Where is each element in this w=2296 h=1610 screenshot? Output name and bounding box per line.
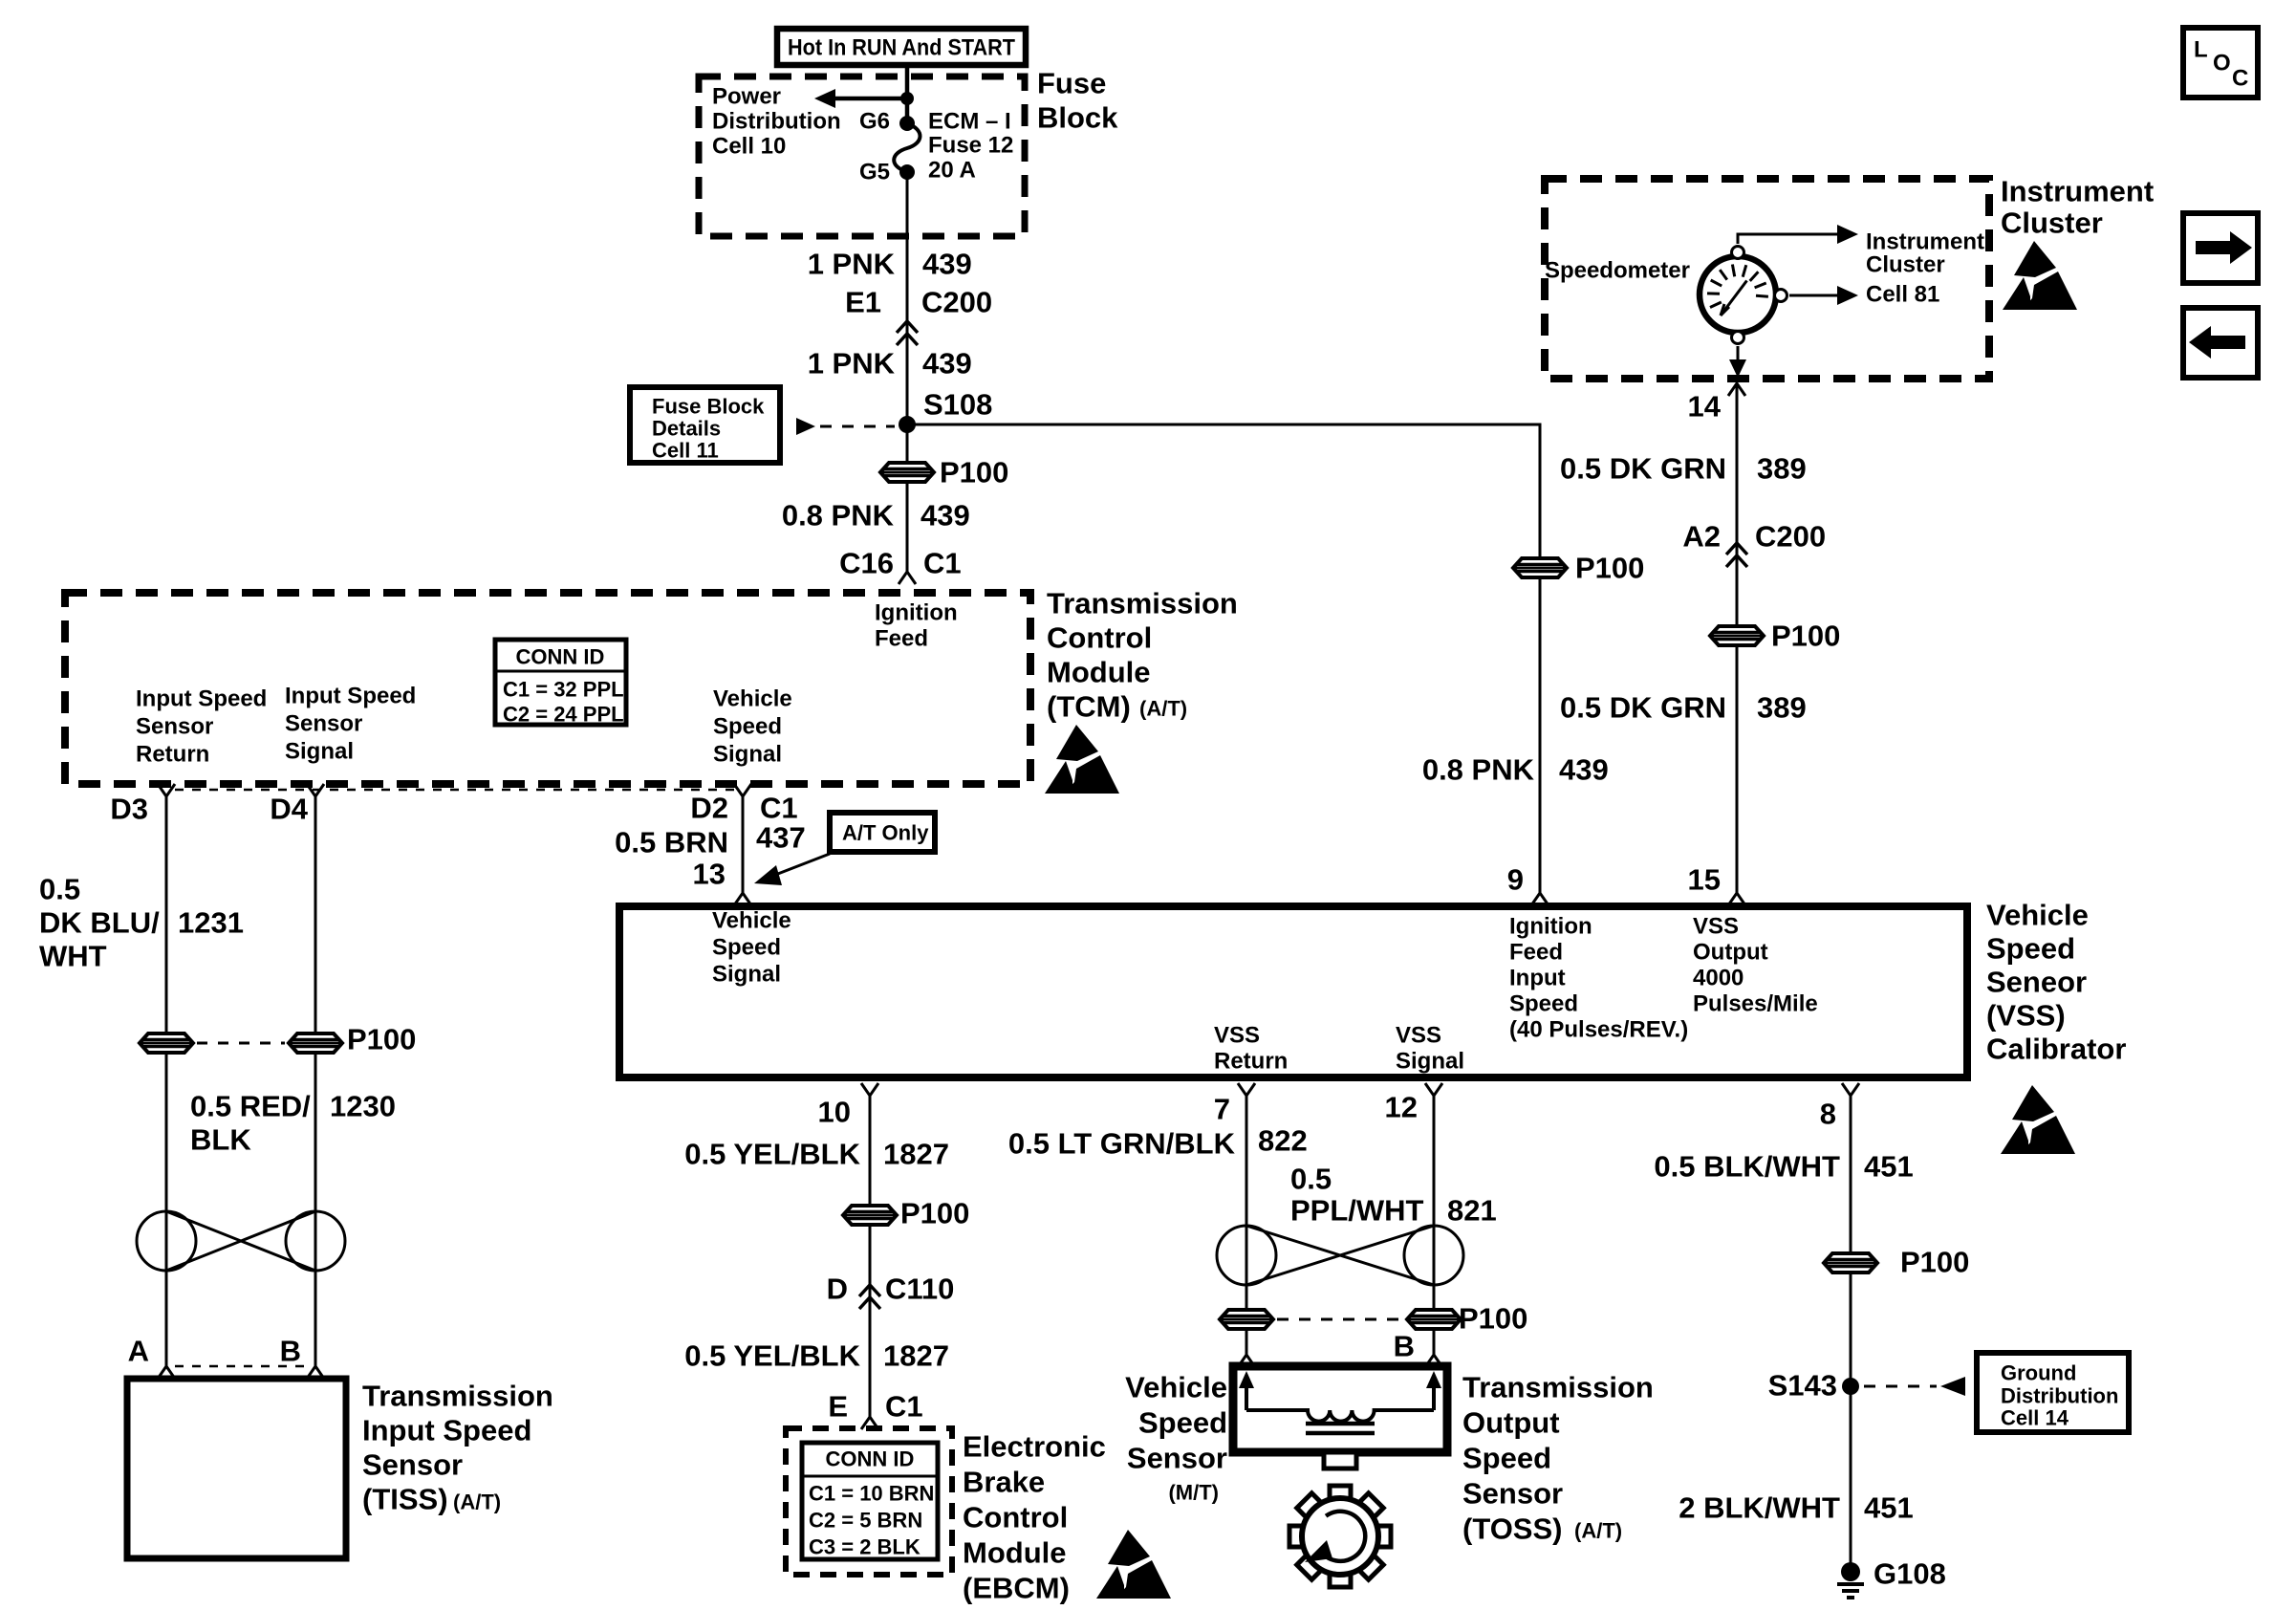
svg-text:Fuse Block: Fuse Block: [652, 395, 765, 419]
pin B: [307, 1366, 324, 1379]
wire: speedometer to cell 81: [1789, 294, 1837, 297]
pin 10: [861, 1083, 878, 1096]
svg-text:Power: Power: [712, 84, 781, 110]
svg-text:VSS: VSS: [1693, 914, 1739, 940]
svg-text:C1: C1: [885, 1390, 923, 1424]
svg-text:Block: Block: [1037, 101, 1118, 135]
svg-text:0.5 DK GRN: 0.5 DK GRN: [1560, 452, 1726, 486]
svg-text:Vehicle: Vehicle: [712, 908, 791, 934]
pin D2 / C1: [734, 784, 751, 796]
svg-text:Signal: Signal: [1396, 1049, 1464, 1075]
svg-text:G108: G108: [1874, 1557, 1946, 1591]
svg-text:1230: 1230: [330, 1090, 396, 1123]
svg-text:Distribution: Distribution: [712, 109, 841, 135]
wire: speedometer to instrument cluster (top): [1738, 234, 1837, 244]
svg-text:(EBCM): (EBCM): [963, 1572, 1070, 1605]
ground G108: [1837, 1557, 1946, 1599]
svg-text:E: E: [828, 1390, 848, 1424]
svg-text:DK BLU/: DK BLU/: [39, 906, 160, 940]
svg-text:Feed: Feed: [875, 626, 928, 652]
svg-text:Input Speed: Input Speed: [285, 684, 416, 709]
instrument cluster dashed box: [1545, 179, 1989, 379]
gear reluctor icon: [1289, 1486, 1391, 1587]
svg-text:C2 = 5 BRN: C2 = 5 BRN: [809, 1509, 922, 1533]
connector P100 on ignition feed branch: [1513, 558, 1567, 577]
svg-text:(M/T): (M/T): [1168, 1481, 1219, 1505]
svg-text:(TOSS): (TOSS): [1462, 1512, 1563, 1546]
svg-text:D4: D4: [270, 793, 308, 826]
svg-text:Ignition: Ignition: [1509, 914, 1592, 940]
VSS calibrator box: [619, 906, 1967, 1077]
TOSS mounting tab: [1324, 1452, 1356, 1469]
wire: VSS output to EBCM: [869, 1096, 872, 1417]
svg-text:Speed: Speed: [1509, 991, 1578, 1017]
svg-text:G6: G6: [859, 109, 890, 135]
svg-text:Module: Module: [963, 1536, 1067, 1570]
svg-text:P100: P100: [1575, 552, 1644, 585]
arrow box right: [2183, 213, 2258, 283]
pin A: [158, 1366, 175, 1379]
svg-text:Output: Output: [1693, 940, 1768, 966]
node G5: [899, 164, 915, 180]
svg-text:Transmission: Transmission: [1462, 1371, 1654, 1404]
svg-text:D2: D2: [690, 792, 728, 825]
wire: hot feed into fuse block: [905, 65, 910, 123]
svg-text:Pulses/Mile: Pulses/Mile: [1693, 991, 1818, 1017]
svg-text:Transmission: Transmission: [1047, 587, 1238, 620]
wire: VSS signal pin 12 down: [1433, 1096, 1436, 1355]
svg-text:0.8 PNK: 0.8 PNK: [782, 499, 895, 533]
svg-text:Sensor: Sensor: [1127, 1442, 1227, 1475]
Hot In RUN And START box: [777, 29, 1026, 65]
svg-text:Signal: Signal: [712, 962, 781, 988]
svg-text:7: 7: [1214, 1093, 1230, 1126]
wire: input speed sensor signal D4: [314, 796, 317, 1366]
svg-text:821: 821: [1447, 1194, 1497, 1228]
svg-text:P100: P100: [1900, 1246, 1969, 1279]
svg-text:WHT: WHT: [39, 940, 107, 973]
svg-text:Cell 14: Cell 14: [2001, 1406, 2069, 1430]
arrow from A/T Only to pin 13: [770, 854, 830, 877]
wire: speedo feed down to VSS pin 15: [1736, 396, 1739, 893]
svg-text:A: A: [128, 1335, 149, 1368]
svg-text:C1: C1: [923, 547, 962, 580]
ESD symbol instrument cluster: [2003, 241, 2077, 310]
svg-text:Cell 81: Cell 81: [1866, 282, 1939, 308]
svg-text:Speed: Speed: [1138, 1406, 1227, 1440]
svg-text:A/T Only: A/T Only: [842, 821, 929, 845]
svg-text:20 A: 20 A: [928, 158, 976, 184]
svg-text:P100: P100: [1459, 1302, 1527, 1336]
svg-text:15: 15: [1688, 863, 1721, 897]
svg-text:439: 439: [922, 248, 972, 281]
svg-text:2 BLK/WHT: 2 BLK/WHT: [1679, 1491, 1840, 1525]
svg-text:CONN ID: CONN ID: [826, 1447, 915, 1471]
pin 14: [1728, 383, 1745, 396]
svg-text:Signal: Signal: [285, 739, 354, 765]
svg-text:Control: Control: [1047, 621, 1152, 655]
svg-text:ECM – I: ECM – I: [928, 109, 1011, 135]
svg-text:1 PNK: 1 PNK: [808, 248, 896, 281]
svg-text:12: 12: [1385, 1091, 1418, 1124]
svg-text:(A/T): (A/T): [453, 1490, 501, 1514]
svg-text:S143: S143: [1768, 1369, 1837, 1403]
CONN ID table TCM: [495, 640, 626, 725]
svg-text:Seneor: Seneor: [1986, 966, 2087, 999]
svg-text:S108: S108: [923, 388, 992, 422]
svg-text:C1: C1: [760, 792, 798, 825]
svg-text:Input Speed: Input Speed: [136, 686, 267, 712]
svg-text:Return: Return: [1214, 1049, 1288, 1075]
svg-text:C2 = 24 PPL: C2 = 24 PPL: [503, 703, 624, 727]
wire: 1 PNK 439 from fuse to TCM: [906, 172, 909, 572]
svg-text:13: 13: [693, 858, 726, 891]
svg-text:Input Speed: Input Speed: [362, 1414, 531, 1447]
svg-text:10: 10: [818, 1096, 851, 1129]
TOSS box: [1233, 1366, 1447, 1452]
svg-text:1231: 1231: [178, 906, 244, 940]
connector P100 on ground wire: [1824, 1253, 1877, 1273]
svg-text:14: 14: [1688, 390, 1722, 424]
connector P100 pair on TISS wires: [140, 1033, 193, 1053]
svg-text:C200: C200: [921, 286, 992, 319]
svg-text:Brake: Brake: [963, 1466, 1045, 1499]
svg-text:Speed: Speed: [713, 714, 782, 740]
wire: VSS ground pin 8 to G108: [1850, 1096, 1852, 1568]
svg-text:0.5 YEL/BLK: 0.5 YEL/BLK: [684, 1138, 860, 1171]
svg-text:0.5 YEL/BLK: 0.5 YEL/BLK: [684, 1339, 860, 1373]
svg-text:439: 439: [1559, 753, 1609, 787]
svg-text:Ignition: Ignition: [875, 600, 958, 626]
dashed A/T pin link under TCM: [175, 789, 734, 792]
pin forks into TOSS: [1238, 1355, 1255, 1367]
svg-text:1827: 1827: [883, 1339, 949, 1373]
A/T Only box: [830, 813, 935, 852]
svg-text:Output: Output: [1462, 1406, 1560, 1440]
svg-text:O: O: [2213, 51, 2231, 76]
svg-text:Feed: Feed: [1509, 940, 1563, 966]
svg-text:Hot In RUN And START: Hot In RUN And START: [788, 35, 1015, 61]
svg-text:0.5: 0.5: [39, 873, 80, 906]
svg-text:C1 = 32 PPL: C1 = 32 PPL: [503, 678, 624, 702]
TISS box: [127, 1379, 346, 1558]
dashed link A to B: [175, 1365, 307, 1368]
svg-text:D: D: [827, 1273, 848, 1306]
svg-text:Speed: Speed: [1986, 932, 2075, 966]
svg-text:Cell 10: Cell 10: [712, 134, 786, 160]
svg-text:(A/T): (A/T): [1139, 697, 1187, 721]
svg-text:451: 451: [1864, 1491, 1914, 1525]
svg-text:CONN ID: CONN ID: [516, 645, 605, 669]
Fuse Block Details Cell 11 box: [630, 387, 780, 463]
svg-text:0.5 DK GRN: 0.5 DK GRN: [1560, 691, 1726, 725]
svg-text:Vehicle: Vehicle: [713, 686, 792, 712]
TCM dashed box: [65, 593, 1030, 784]
svg-text:8: 8: [1820, 1098, 1836, 1131]
arrow box left: [2183, 308, 2258, 378]
svg-text:451: 451: [1864, 1150, 1914, 1184]
svg-text:Vehicle: Vehicle: [1125, 1371, 1227, 1404]
twisted pair symbol TOSS: [1217, 1226, 1463, 1285]
splice S108: [899, 416, 916, 433]
svg-text:Speed: Speed: [1462, 1442, 1551, 1475]
svg-text:B: B: [280, 1335, 301, 1368]
svg-text:BLK: BLK: [190, 1123, 251, 1157]
wire: vehicle speed signal D2 to VSS pin 13: [742, 796, 745, 893]
svg-text:9: 9: [1507, 863, 1524, 897]
svg-text:437: 437: [756, 821, 806, 855]
connector P100 on ignition feed: [880, 463, 934, 482]
svg-text:(VSS): (VSS): [1986, 999, 2066, 1033]
svg-text:439: 439: [922, 347, 972, 381]
svg-text:Instrument: Instrument: [1866, 229, 1984, 255]
svg-text:Return: Return: [136, 742, 209, 768]
svg-text:(TISS): (TISS): [362, 1483, 448, 1516]
svg-text:(40 Pulses/REV.): (40 Pulses/REV.): [1509, 1017, 1688, 1043]
pin 12: [1425, 1083, 1442, 1096]
svg-text:0.5 BRN: 0.5 BRN: [615, 826, 728, 859]
svg-text:L: L: [2194, 37, 2208, 63]
svg-text:E1: E1: [845, 286, 881, 319]
ESD symbol TCM: [1045, 725, 1119, 794]
svg-text:Sensor: Sensor: [362, 1448, 463, 1482]
svg-text:C16: C16: [839, 547, 894, 580]
dashed reference arrow to ground distribution: [1864, 1385, 1937, 1388]
node G6: [899, 116, 915, 131]
svg-text:Signal: Signal: [713, 742, 782, 768]
svg-text:G5: G5: [859, 160, 890, 185]
wire: S108 to VSS pin 9: [907, 424, 1540, 893]
svg-text:A2: A2: [1682, 520, 1721, 554]
sensor coil internals: [1239, 1371, 1441, 1433]
svg-text:C200: C200: [1755, 520, 1826, 554]
pin D3: [158, 784, 175, 796]
svg-text:822: 822: [1258, 1124, 1308, 1158]
svg-text:Ground: Ground: [2001, 1361, 2076, 1385]
twisted pair symbol TISS: [137, 1211, 345, 1271]
svg-text:C1 = 10 BRN: C1 = 10 BRN: [809, 1482, 934, 1506]
svg-text:Cell 11: Cell 11: [652, 439, 719, 463]
fuse ECM-I Fuse 12 20A: [894, 123, 920, 171]
svg-text:Sensor: Sensor: [136, 714, 213, 740]
connector P100 on speedo feed: [1710, 626, 1764, 645]
fuse block dashed box: [699, 76, 1025, 236]
svg-text:Sensor: Sensor: [285, 711, 362, 737]
LOC box: [2183, 28, 2258, 98]
wire: input speed sensor return D3: [165, 796, 168, 1366]
svg-text:Instrument: Instrument: [2001, 175, 2154, 208]
connector P100 on EBCM wire: [843, 1206, 897, 1225]
svg-text:389: 389: [1757, 691, 1807, 725]
svg-text:389: 389: [1757, 452, 1807, 486]
svg-text:P100: P100: [347, 1023, 416, 1056]
svg-text:PPL/WHT: PPL/WHT: [1290, 1194, 1424, 1228]
svg-text:P100: P100: [1771, 620, 1840, 653]
connector P100 pair on TOSS wires: [1220, 1310, 1273, 1329]
svg-text:4000: 4000: [1693, 966, 1744, 991]
svg-text:Speedometer: Speedometer: [1545, 258, 1690, 284]
wire: VSS return pin 7 down: [1245, 1096, 1248, 1355]
wire: speedometer output down: [1737, 346, 1740, 361]
svg-text:Distribution: Distribution: [2001, 1384, 2118, 1408]
svg-text:Module: Module: [1047, 656, 1151, 689]
svg-text:Control: Control: [963, 1501, 1068, 1534]
svg-text:Cluster: Cluster: [1866, 252, 1945, 278]
svg-text:B: B: [1394, 1330, 1415, 1363]
svg-text:(TCM): (TCM): [1047, 690, 1131, 724]
svg-text:C3 = 2 BLK: C3 = 2 BLK: [809, 1535, 921, 1559]
dashed reference arrow to S108: [796, 418, 815, 435]
pin D4: [307, 784, 324, 796]
ESD symbol EBCM: [1096, 1530, 1171, 1599]
svg-text:439: 439: [921, 499, 970, 533]
wire: power distribution branch arrow: [828, 97, 907, 101]
svg-text:Input: Input: [1509, 966, 1566, 991]
svg-text:1827: 1827: [883, 1138, 949, 1171]
pin 7: [1238, 1083, 1255, 1096]
pin 8: [1842, 1083, 1859, 1096]
svg-text:Fuse 12: Fuse 12: [928, 133, 1013, 159]
svg-text:VSS: VSS: [1214, 1023, 1260, 1049]
svg-text:1 PNK: 1 PNK: [808, 347, 896, 381]
svg-text:P100: P100: [900, 1197, 969, 1230]
svg-text:(A/T): (A/T): [1574, 1519, 1622, 1543]
svg-text:0.5 BLK/WHT: 0.5 BLK/WHT: [1654, 1150, 1840, 1184]
svg-text:C110: C110: [885, 1273, 954, 1306]
svg-text:Details: Details: [652, 417, 721, 441]
Ground Distribution Cell 14 box: [1977, 1353, 2129, 1432]
svg-text:D3: D3: [110, 793, 148, 826]
svg-text:0.8 PNK: 0.8 PNK: [1422, 753, 1535, 787]
ESD symbol VSS calibrator: [2001, 1085, 2075, 1154]
svg-text:VSS: VSS: [1396, 1023, 1441, 1049]
svg-text:Cluster: Cluster: [2001, 207, 2103, 240]
svg-text:C: C: [2232, 66, 2248, 92]
splice S143: [1842, 1378, 1859, 1395]
svg-text:P100: P100: [940, 456, 1008, 490]
svg-text:Speed: Speed: [712, 935, 781, 961]
svg-text:Vehicle: Vehicle: [1986, 899, 2089, 932]
CONN ID table EBCM: [802, 1443, 938, 1559]
svg-text:0.5: 0.5: [1290, 1163, 1332, 1196]
svg-text:Transmission: Transmission: [362, 1380, 553, 1413]
svg-text:0.5 RED/: 0.5 RED/: [190, 1090, 311, 1123]
svg-text:Calibrator: Calibrator: [1986, 1033, 2126, 1066]
speedometer gauge: [1700, 247, 1787, 344]
junction dot: [900, 92, 914, 105]
svg-text:Sensor: Sensor: [1462, 1477, 1563, 1511]
svg-text:Fuse: Fuse: [1037, 67, 1106, 100]
svg-text:0.5 LT GRN/BLK: 0.5 LT GRN/BLK: [1008, 1127, 1236, 1161]
EBCM dashed box: [786, 1428, 952, 1575]
svg-text:Electronic: Electronic: [963, 1430, 1106, 1464]
